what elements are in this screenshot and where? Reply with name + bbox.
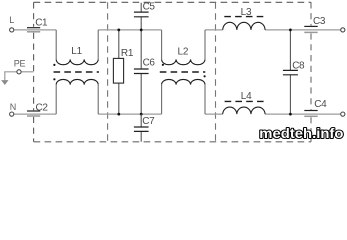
L1 bottom winding polarity dot	[53, 78, 55, 80]
inductor L1 bottom winding	[56, 79, 98, 84]
wire top middle	[98, 29, 161, 31]
svg-text:L1: L1	[71, 46, 82, 57]
ground arrow	[1, 80, 8, 85]
feedthrough capacitor C3 dark plate	[304, 25, 317, 27]
svg-text:L2: L2	[178, 46, 189, 57]
feedthrough capacitor C1 gray plate	[27, 31, 40, 33]
capacitor C5 leads	[140, 3, 142, 30]
enclosure dashed left wall	[33, 2, 35, 142]
feedthrough capacitor C1 dark plate	[27, 27, 40, 29]
terminal L output	[341, 28, 345, 32]
resistor R1 leads	[118, 30, 120, 114]
inductor L2 core dashed	[160, 71, 206, 73]
inductor L2 bottom winding	[162, 79, 205, 84]
svg-text:C5: C5	[143, 2, 156, 13]
resistor R1 body	[113, 58, 123, 83]
feedthrough capacitor C2 dark plate	[27, 110, 40, 112]
wire PE to ground	[5, 72, 17, 81]
svg-text:C6: C6	[143, 58, 156, 69]
inductor L2 top winding	[162, 59, 205, 64]
wire bottom middle	[98, 113, 161, 115]
wire L input	[14, 29, 56, 31]
wire N input	[14, 113, 56, 115]
inductor L3 core dashed	[224, 16, 266, 18]
svg-text:PE: PE	[14, 59, 26, 69]
junction C6/C7 bottom	[140, 113, 143, 116]
inductor L1 top winding	[56, 59, 98, 64]
inductor L2 verticals	[162, 30, 205, 114]
svg-text:L3: L3	[241, 7, 252, 18]
capacitor C6 leads	[140, 30, 142, 114]
section divider dashed 2	[215, 2, 217, 142]
capacitor C8 leads	[289, 30, 291, 114]
inductor L4 core dashed	[225, 100, 267, 102]
svg-text:L4: L4	[241, 91, 252, 102]
terminal N output	[341, 112, 345, 116]
svg-text:C2: C2	[36, 102, 49, 113]
svg-text:C1: C1	[35, 17, 48, 28]
watermark medteh.info	[259, 126, 343, 141]
wire top right of L2	[205, 29, 223, 31]
capacitor C5 plates	[134, 12, 149, 17]
feedthrough capacitor C3 gray plate	[304, 31, 317, 33]
capacitor C7 plates	[134, 127, 149, 131]
svg-text:L: L	[9, 15, 14, 25]
junction R1 bottom	[117, 113, 120, 116]
feedthrough capacitor C4 dark plate	[304, 110, 317, 112]
L2 top winding polarity dot	[162, 64, 164, 66]
enclosure dashed box bottom	[34, 141, 311, 143]
terminal L input	[10, 28, 14, 32]
terminal N input	[10, 112, 14, 116]
L2 bottom winding polarity dot	[204, 75, 206, 77]
inductor L4 winding	[223, 107, 265, 114]
inductor L3 winding	[223, 22, 265, 30]
capacitor C8 plates	[283, 70, 298, 74]
svg-text:C7: C7	[142, 116, 155, 127]
L1 top winding polarity dot	[53, 64, 55, 66]
svg-text:C8: C8	[292, 61, 305, 72]
junction C8 bottom	[289, 113, 292, 116]
junction C8 top	[289, 29, 292, 32]
wire bottom output	[265, 113, 341, 115]
feedthrough capacitor C2 gray plate	[27, 115, 40, 117]
capacitor C7 leads	[140, 114, 142, 142]
wire top output	[265, 29, 341, 31]
inductor L1 core dashed	[54, 71, 100, 73]
enclosure dashed right wall	[310, 2, 312, 142]
svg-text:C4: C4	[314, 99, 327, 110]
junction C5/C6 top	[140, 29, 143, 32]
junction R1 top	[117, 29, 120, 32]
feedthrough capacitor C4 gray plate	[304, 115, 317, 117]
svg-text:C3: C3	[313, 16, 326, 27]
capacitor C6 plates	[134, 69, 149, 74]
wire bottom right of L2	[205, 113, 223, 115]
terminal PE	[17, 70, 21, 74]
section divider dashed 1	[107, 2, 109, 142]
svg-text:medteh.info: medteh.info	[259, 126, 343, 141]
enclosure dashed box top	[34, 1, 311, 3]
wire PE to wall	[21, 71, 33, 73]
inductor L1 verticals	[56, 30, 98, 114]
svg-text:R1: R1	[121, 48, 134, 59]
svg-text:N: N	[10, 102, 17, 112]
